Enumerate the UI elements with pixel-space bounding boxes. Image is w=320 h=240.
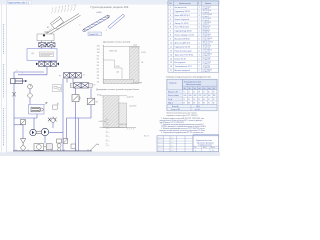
svg-text:ГОСТ 8753-80: ГОСТ 8753-80 [203, 14, 213, 16]
svg-text:Диаграмма осевых усилий: Диаграмма осевых усилий [103, 41, 131, 44]
svg-text:т.2 лист 18: т.2 лист 18 [203, 67, 210, 69]
svg-text:521.20.06.00: 521.20.06.00 [203, 18, 212, 20]
svg-text:Бак подпитки: Бак подпитки [175, 62, 186, 64]
svg-text:Клапан предохр. 521.20: Клапан предохр. 521.20 [175, 35, 194, 37]
svg-text:Подп: Подп [171, 145, 174, 147]
svg-text:Электродвигатели серии: Электродвигатели серии [184, 81, 201, 83]
svg-text:КПД, %: КПД, % [168, 103, 174, 105]
svg-text:L=0,5: L=0,5 [133, 44, 137, 46]
svg-text:7,5: 7,5 [183, 92, 185, 94]
svg-text:980: 980 [213, 95, 216, 97]
svg-text:5: 5 [58, 104, 59, 106]
svg-text:6: 6 [68, 6, 69, 8]
svg-text:Подп: Подп [171, 142, 174, 144]
svg-text:Примеч.: Примеч. [205, 3, 212, 5]
svg-text:11: 11 [188, 92, 190, 94]
svg-text:14: 14 [170, 58, 172, 60]
svg-text:монтажа систему промыть и испы: монтажа систему промыть и испытать давле… [160, 130, 206, 132]
svg-text:Р2: Р2 [93, 84, 95, 86]
svg-text:70: 70 [213, 99, 215, 101]
svg-text:т.2 лист 15: т.2 лист 15 [203, 55, 210, 57]
svg-text:т.2 лист 13: т.2 лист 13 [203, 47, 210, 49]
svg-text:т.2 лист 3: т.2 лист 3 [203, 8, 210, 10]
svg-text:310.12.00.00: 310.12.00.00 [203, 10, 212, 12]
svg-text:1.1.32-25-80: 1.1.32-25-80 [203, 22, 211, 24]
svg-text:1: 1 [52, 8, 53, 10]
svg-text:У1: У1 [83, 75, 85, 77]
svg-text:3: 3 [199, 50, 200, 52]
svg-text:700: 700 [97, 62, 100, 64]
svg-text:Частота, об/мин: Частота, об/мин [168, 95, 179, 97]
svg-text:90: 90 [203, 103, 205, 105]
svg-text:11: 11 [170, 46, 172, 48]
svg-text:1465: 1465 [193, 95, 196, 97]
svg-text:1: 1 [199, 7, 200, 9]
svg-text:5: 5 [170, 23, 171, 25]
svg-text:92: 92 [213, 103, 215, 105]
svg-text:89: 89 [193, 103, 195, 105]
svg-text:Примечание размеры даны для с: Примечание размеры даны для справок, [167, 113, 198, 115]
svg-text:Дроссель ДЛК 32.3: Дроссель ДЛК 32.3 [175, 43, 190, 45]
svg-text:a: a [106, 30, 107, 32]
svg-text:L=9500: L=9500 [96, 12, 101, 14]
svg-text:Изм Лист: Изм Лист [158, 145, 164, 147]
svg-text:т.2 лист 8: т.2 лист 8 [203, 28, 210, 30]
svg-text:т.2 лист 17: т.2 лист 17 [203, 63, 210, 65]
svg-text:4: 4 [170, 19, 171, 21]
svg-text:Труба 22х2 ГОСТ 8734: Труба 22х2 ГОСТ 8734 [175, 54, 193, 56]
svg-text:30: 30 [208, 92, 210, 94]
svg-text:Изм Лист: Изм Лист [158, 142, 164, 144]
svg-text:т.2 лист 10: т.2 лист 10 [203, 36, 210, 38]
svg-text:М4: М4 [199, 88, 201, 90]
svg-text:Итого кВт: Итого кВт [172, 106, 179, 108]
svg-text:Наименование: Наименование [179, 3, 191, 5]
svg-text:Таблица исходных данных электр: Таблица исходных данных электродвигателе… [166, 75, 212, 78]
svg-text:6: 6 [17, 70, 18, 72]
svg-text:КС-20.01.00: КС-20.01.00 [203, 57, 211, 59]
svg-text:15: 15 [193, 92, 195, 94]
svg-text:2: 2 [199, 70, 200, 72]
svg-text:5: 5 [65, 6, 66, 8]
svg-text:Подп: Подп [171, 139, 174, 141]
svg-text:т.2 лист 12: т.2 лист 12 [203, 43, 210, 45]
svg-text:Изм Лист: Изм Лист [158, 147, 164, 149]
svg-text:Клапан КС-20: Клапан КС-20 [175, 58, 186, 60]
svg-text:т.2 лист 6: т.2 лист 6 [203, 20, 210, 22]
svg-text:12: 12 [170, 50, 172, 52]
svg-text:Поз: Поз [169, 3, 172, 5]
svg-text:2: 2 [199, 35, 200, 37]
svg-text:8: 8 [170, 35, 171, 37]
svg-text:Манометр МТП-60: Манометр МТП-60 [175, 39, 190, 41]
svg-text:М3: М3 [194, 88, 196, 90]
svg-text:15: 15 [106, 131, 108, 133]
svg-text:22: 22 [203, 92, 205, 94]
svg-text:13: 13 [170, 54, 172, 56]
svg-text:3: 3 [199, 15, 200, 17]
svg-text:ГОСТ 9697-87: ГОСТ 9697-87 [203, 69, 213, 71]
svg-text:Параметр: Параметр [169, 82, 176, 84]
svg-text:параметры соответствуют ГОСТ 1: параметры соответствуют ГОСТ 19523-81 [167, 115, 198, 117]
svg-text:9: 9 [170, 39, 171, 41]
svg-text:Изм Лист: Изм Лист [158, 150, 164, 152]
svg-text:Грузоподъемник, модель 403: Грузоподъемник, модель 403 [91, 5, 129, 9]
svg-text:и таблицы расчетов: и таблицы расчетов [198, 144, 212, 146]
svg-text:т.2 лист 14: т.2 лист 14 [203, 51, 210, 53]
svg-text:2=113: 2=113 [141, 52, 145, 54]
svg-text:1: 1 [199, 54, 200, 56]
svg-text:Масса: Масса [203, 147, 207, 149]
svg-text:2: 2 [199, 23, 200, 25]
svg-text:1: 1 [199, 31, 200, 33]
svg-text:4: 4 [62, 7, 63, 9]
svg-text:т.2 лист 16: т.2 лист 16 [203, 59, 210, 61]
svg-text:3: 3 [59, 7, 60, 9]
svg-text:13: 13 [106, 123, 108, 125]
svg-text:90: 90 [198, 103, 200, 105]
svg-text:7: 7 [170, 31, 171, 33]
svg-text:1460: 1460 [188, 95, 191, 97]
svg-text:15: 15 [170, 62, 172, 64]
svg-text:1445: 1445 [183, 95, 186, 97]
svg-text:т.2 лист 5: т.2 лист 5 [203, 16, 210, 18]
svg-text:500: 500 [97, 68, 100, 70]
svg-text:1000: 1000 [97, 52, 101, 54]
svg-text:η = 0,9: η = 0,9 [195, 109, 200, 111]
svg-text:1. Рабочая жидкость масло МГ-: 1. Рабочая жидкость масло МГ-30 ГОСТ 174… [161, 118, 204, 120]
svg-text:541.08.00.00: 541.08.00.00 [203, 46, 212, 48]
svg-text:т.2 лист 9: т.2 лист 9 [203, 32, 210, 34]
svg-text:20,08: 20,08 [116, 66, 120, 68]
svg-text:7: 7 [72, 5, 73, 7]
svg-text:800: 800 [97, 59, 100, 61]
svg-text:12: 12 [106, 118, 108, 120]
svg-text:3: 3 [199, 39, 200, 41]
svg-text:200: 200 [97, 78, 100, 80]
svg-text:2: 2 [170, 11, 171, 13]
svg-text:3: 3 [199, 27, 200, 29]
svg-text:8: 8 [75, 5, 76, 7]
svg-text:Б1: Б1 [47, 27, 49, 29]
svg-text:Фильтр 1.1.32-25: Фильтр 1.1.32-25 [175, 22, 189, 25]
svg-text:ДЛК 32.3-УХЛ4: ДЛК 32.3-УХЛ4 [203, 42, 213, 44]
svg-text:960: 960 [208, 95, 211, 97]
svg-text:М7: М7 [213, 88, 215, 90]
svg-text:Вентиль запорный: Вентиль запорный [175, 69, 190, 72]
svg-text:Рукав высокого давл.: Рукав высокого давл. [175, 50, 193, 52]
svg-text:140,5: 140,5 [196, 106, 200, 108]
svg-text:М1: М1 [184, 88, 186, 90]
svg-text:1: 1 [199, 19, 200, 21]
svg-text:18: 18 [106, 144, 108, 146]
svg-text:т.2 лист 19: т.2 лист 19 [203, 71, 210, 73]
svg-text:1475: 1475 [203, 95, 206, 97]
svg-text:М2: М2 [189, 88, 191, 90]
svg-text:1200: 1200 [97, 46, 101, 48]
svg-text:2: 2 [199, 58, 200, 60]
svg-text:14,3: 14,3 [116, 72, 119, 74]
svg-text:φ=113,75: φ=113,75 [127, 96, 134, 98]
svg-text:h: h [80, 24, 81, 26]
svg-text:22: 22 [188, 99, 190, 101]
svg-text:Клапан обратный: Клапан обратный [175, 18, 189, 21]
svg-text:10: 10 [170, 43, 172, 45]
svg-text:88: 88 [188, 103, 190, 105]
svg-text:600: 600 [97, 65, 100, 67]
svg-text:Насос НШ 32У-3-Л: Насос НШ 32У-3-Л [175, 15, 190, 17]
svg-text:35: 35 [198, 99, 200, 101]
svg-text:Гидроцилиндр ЦГ-80: Гидроцилиндр ЦГ-80 [175, 31, 192, 33]
svg-text:300: 300 [97, 75, 100, 77]
svg-text:1470: 1470 [198, 95, 201, 97]
svg-text:Гидрозамок 541.08: Гидрозамок 541.08 [175, 46, 190, 48]
svg-text:100: 100 [97, 82, 100, 84]
svg-text:400: 400 [97, 72, 100, 74]
svg-text:Бак масляный: Бак масляный [175, 6, 187, 9]
svg-text:К: К [198, 3, 199, 5]
svg-text:1100: 1100 [97, 49, 100, 51]
svg-text:29: 29 [193, 99, 195, 101]
svg-text:Теплообменник ТО-2: Теплообменник ТО-2 [175, 66, 192, 68]
svg-text:Масшт: Масшт [211, 147, 216, 149]
svg-text:3: 3 [199, 62, 200, 64]
svg-text:ГОСТ 6286-73: ГОСТ 6286-73 [203, 50, 213, 52]
svg-text:42: 42 [203, 99, 205, 101]
svg-text:1:10: 1:10 [56, 28, 59, 30]
svg-text:2: 2 [199, 11, 200, 13]
svg-text:14: 14 [106, 127, 108, 129]
svg-text:подъемника. Диаграммы: подъемника. Диаграммы [197, 142, 214, 144]
svg-text:Расп. Р80-3/1-222: Расп. Р80-3/1-222 [175, 27, 190, 29]
svg-text:91: 91 [208, 103, 210, 105]
svg-text:т.2 лист 7: т.2 лист 7 [203, 24, 210, 26]
svg-text:Изм Лист: Изм Лист [158, 139, 164, 141]
svg-text:т.2 лист 4: т.2 лист 4 [203, 12, 210, 14]
svg-text:6: 6 [170, 27, 171, 29]
svg-text:87: 87 [183, 103, 185, 105]
svg-text:Лист 3: Лист 3 [144, 136, 149, 138]
svg-text:Подп: Подп [171, 147, 174, 149]
svg-text:1: 1 [170, 7, 171, 9]
svg-text:Изм Лист: Изм Лист [158, 137, 164, 139]
svg-text:37: 37 [213, 92, 215, 94]
svg-text:Р1: Р1 [59, 75, 61, 77]
svg-text:17: 17 [106, 139, 108, 141]
svg-text:17: 17 [170, 70, 172, 72]
svg-text:т.2 лист 11: т.2 лист 11 [203, 39, 210, 41]
svg-text:2: 2 [199, 46, 200, 48]
svg-text:ОСТ 22-2-74: ОСТ 22-2-74 [203, 6, 212, 8]
svg-text:ГОСТ 2405-88: ГОСТ 2405-88 [203, 38, 213, 40]
svg-text:М6: М6 [208, 88, 210, 90]
svg-text:Стрела 9,5: Стрела 9,5 [89, 34, 98, 36]
svg-text:2=63,2 кН: 2=63,2 кН [120, 124, 128, 126]
svg-text:7: 7 [22, 73, 23, 75]
svg-text:18: 18 [198, 92, 200, 94]
svg-text:Подп: Подп [171, 137, 174, 139]
svg-text:Cos φ = 0,86: Cos φ = 0,86 [171, 109, 180, 111]
svg-text:М5: М5 [203, 88, 205, 90]
svg-text:1: 1 [199, 43, 200, 45]
svg-text:15: 15 [183, 99, 185, 101]
svg-text:1:1: 1:1 [212, 150, 214, 152]
svg-text:Подп: Подп [171, 150, 174, 152]
svg-text:Мощность, кВт: Мощность, кВт [168, 92, 178, 94]
svg-text:ции 25 мкм по ГОСТ 17216-2001.: ции 25 мкм по ГОСТ 17216-2001. [160, 122, 185, 124]
svg-text:4. Управление распределителями: 4. Управление распределителями Р1, Р2 эл… [161, 132, 204, 134]
svg-text:3. Монтаж трубопроводов вести: 3. Монтаж трубопроводов вести по ГОСТ 16… [161, 128, 204, 130]
svg-text:2: 2 [56, 7, 57, 9]
svg-text:16: 16 [170, 66, 172, 68]
svg-text:16: 16 [106, 135, 108, 137]
svg-text:ГОСТ 8734-75: ГОСТ 8734-75 [203, 54, 213, 56]
svg-text:Ц1: Ц1 [32, 53, 34, 55]
svg-text:57: 57 [208, 99, 210, 101]
svg-text:Диаграмма осевых усилий несуще: Диаграмма осевых усилий несущей балки [96, 88, 140, 91]
svg-text:1: 1 [199, 66, 200, 68]
svg-text:900: 900 [97, 55, 100, 57]
svg-text:3: 3 [170, 15, 171, 17]
svg-text:Гидромотор 310.12: Гидромотор 310.12 [175, 11, 191, 13]
svg-text:Гидравлическая схема: Гидравлическая схема [196, 140, 212, 142]
svg-text:Гидросхема.cdw 1:1: Гидросхема.cdw 1:1 [7, 1, 30, 4]
